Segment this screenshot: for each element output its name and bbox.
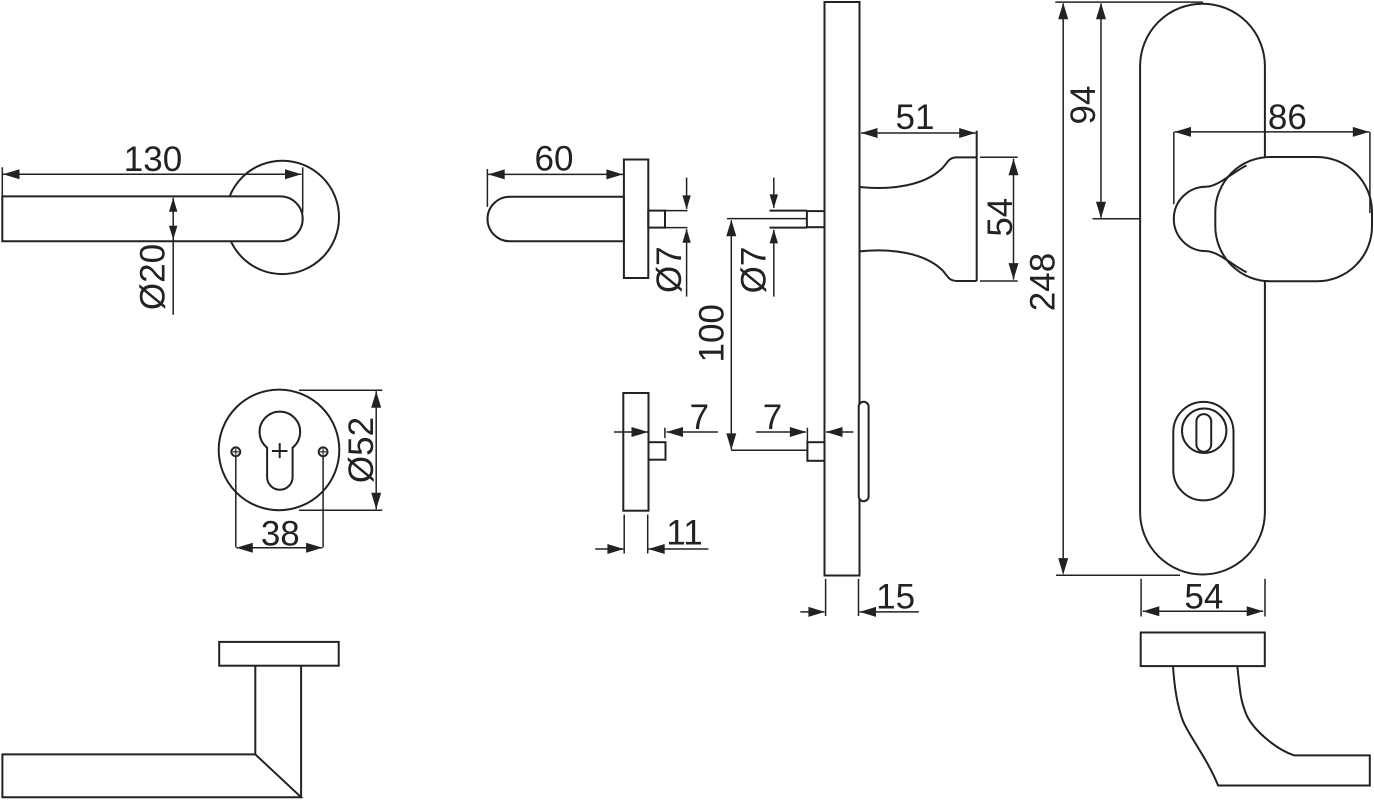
svg-text:15: 15 (876, 578, 915, 617)
svg-text:7: 7 (690, 398, 709, 437)
svg-text:11: 11 (666, 514, 702, 553)
svg-text:130: 130 (124, 140, 182, 179)
svg-text:Ø20: Ø20 (134, 244, 173, 310)
svg-text:54: 54 (981, 198, 1020, 237)
svg-text:54: 54 (1184, 577, 1223, 616)
svg-text:Ø7: Ø7 (735, 247, 774, 294)
svg-text:100: 100 (693, 304, 732, 362)
svg-text:86: 86 (1268, 98, 1307, 137)
svg-text:60: 60 (535, 140, 574, 179)
svg-text:38: 38 (261, 514, 300, 553)
svg-text:51: 51 (896, 98, 935, 137)
svg-text:7: 7 (763, 398, 782, 437)
svg-text:94: 94 (1064, 86, 1103, 125)
svg-text:248: 248 (1024, 253, 1063, 311)
svg-text:Ø7: Ø7 (650, 246, 689, 293)
svg-text:Ø52: Ø52 (342, 417, 381, 483)
